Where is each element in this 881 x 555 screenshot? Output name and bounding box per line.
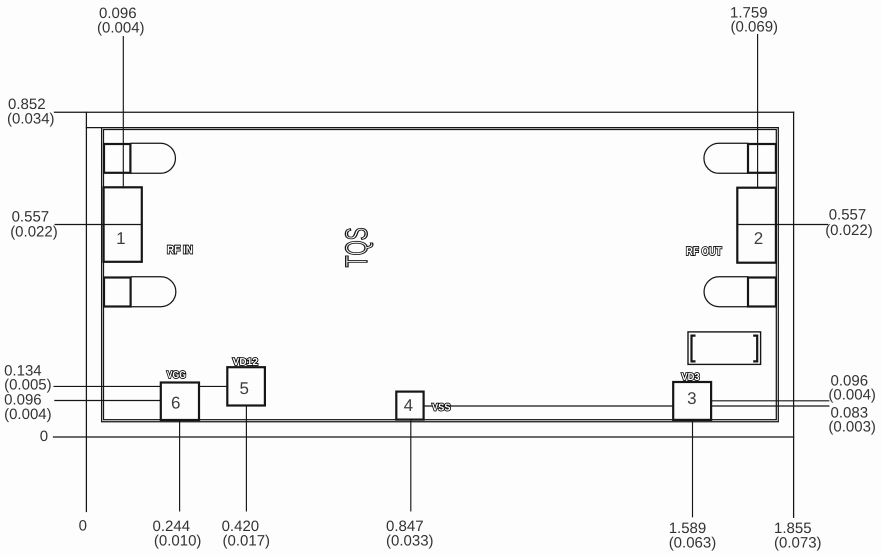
pad 1 (RF IN) (104, 187, 142, 261)
svg-text:4: 4 (404, 396, 413, 415)
svg-text:TQS: TQS (339, 227, 374, 267)
svg-text:RF IN: RF IN (167, 244, 193, 256)
package outline outer rectangle (top edge doubles as 0.852 dimension line) (55, 111, 794, 113)
svg-text:(0.004): (0.004) (828, 387, 876, 404)
svg-text:(0.004): (0.004) (4, 406, 52, 423)
pad 6 (VGG) (161, 383, 199, 421)
leader wire 0.557 right (crosses pad 2) (737, 224, 828, 226)
pill rounded end bottom-right (704, 277, 748, 307)
extension wire 0.847 below pad 4 (410, 419, 412, 512)
dimension label 0.557 right (825, 207, 873, 239)
svg-text:1: 1 (116, 229, 125, 248)
pad pill P3 top-right: thick rect part (748, 144, 776, 173)
svg-text:VGG: VGG (167, 370, 186, 381)
svg-text:VSS: VSS (432, 403, 451, 414)
svg-text:5: 5 (239, 379, 248, 398)
pad pill P2 bottom-left: thick rect part (104, 278, 131, 307)
pad 3 (VD3) (673, 382, 711, 420)
dimension label 0.096 top (97, 5, 145, 36)
dimension label 0.096 / 0.083 right (828, 372, 876, 435)
dimension label 0.244 bottom (153, 518, 202, 549)
pad 4 (VSS) (396, 392, 423, 420)
svg-text:2: 2 (754, 229, 763, 248)
pill rounded end bottom-left (131, 277, 176, 307)
dimension label 1.589 bottom (669, 520, 717, 551)
leader wire 0.096/0.004 right from pad 3 (711, 400, 829, 402)
svg-text:(0.073): (0.073) (774, 534, 822, 551)
carrier rectangle M (outer of inner pair) (86, 128, 778, 422)
svg-text:VD3: VD3 (681, 372, 700, 383)
svg-text:(0.022): (0.022) (825, 222, 873, 239)
pad 2 (RF OUT) (737, 188, 776, 263)
carrier rectangle N (inner of inner pair) (104, 130, 777, 420)
svg-text:(0.033): (0.033) (386, 532, 434, 549)
svg-text:0: 0 (40, 428, 48, 445)
svg-text:RF OUT: RF OUT (686, 246, 722, 258)
svg-text:(0.010): (0.010) (154, 532, 202, 549)
leader wire 0.557 left (crosses pad 1) (55, 224, 142, 226)
pad pill P1 top-left: thick rect part (104, 144, 130, 173)
svg-text:VD12: VD12 (233, 357, 259, 368)
pad 5 (VD12) (227, 367, 265, 405)
svg-text:(0.004): (0.004) (97, 20, 145, 37)
pad pill P4 bottom-right: thick rect part (748, 278, 776, 307)
svg-text:0: 0 (79, 518, 87, 535)
svg-text:(0.069): (0.069) (731, 19, 779, 36)
leader wire 0.096 top to pad 1 (122, 36, 124, 187)
svg-text:(0.034): (0.034) (7, 111, 55, 128)
extension wire 0.244 below pad 6 (179, 420, 181, 512)
leader wire 1.759 top to pad 2 (757, 34, 759, 188)
dimension label 1.759 top (730, 4, 778, 35)
pill rounded end top-left (131, 143, 176, 173)
extension wire 0.420 below pad 5 (245, 406, 247, 512)
svg-text:(0.063): (0.063) (669, 534, 717, 551)
dimension label 0.557 left (10, 209, 58, 241)
capacitor C1 outline (bracket rectangle) (688, 332, 761, 365)
svg-text:3: 3 (687, 389, 696, 408)
dimension label 0.420 bottom (222, 518, 270, 549)
dimension label 1.855 bottom (774, 520, 822, 551)
leader wire VSS pad4 to 0.083 label (passes behind pad3) (424, 405, 830, 407)
pill rounded end top-right (704, 143, 748, 173)
svg-text:(0.017): (0.017) (223, 532, 271, 549)
dimension label 0.134 left (4, 362, 52, 393)
svg-text:(0.022): (0.022) (10, 224, 58, 241)
dimension label 0.096 left lower (4, 392, 52, 423)
dimension label 0.847 bottom (386, 518, 434, 549)
svg-text:6: 6 (171, 394, 180, 413)
dimension label 0.852 left (7, 96, 55, 128)
svg-text:(0.003): (0.003) (828, 419, 876, 436)
leader wire 0.096 to pad6 left edge (54, 400, 161, 402)
extension wire 1.589 below pad 3 (692, 420, 694, 518)
leader wire 0.134 to pad5 left edge (54, 385, 228, 387)
